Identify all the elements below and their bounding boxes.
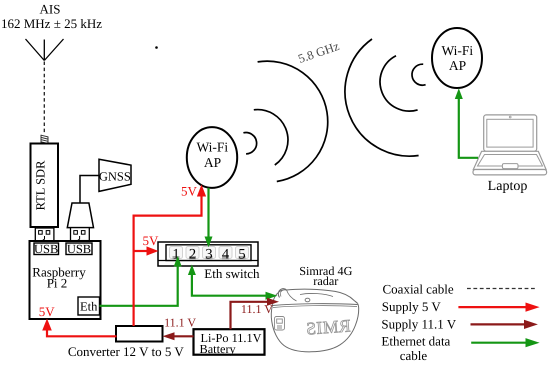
Simrad 4G radar radome sketch — [271, 289, 358, 352]
svg-text:11.1 V: 11.1 V — [241, 302, 273, 316]
svg-text:radar: radar — [313, 274, 338, 288]
svg-text:Laptop: Laptop — [488, 179, 528, 194]
USB plug of RTL SDR — [35, 228, 54, 241]
svg-text:Wi-Fi: Wi-Fi — [441, 43, 473, 58]
Ethernet cable switch port 2 to radar (green) — [192, 272, 266, 296]
svg-text:Coaxial cable: Coaxial cable — [383, 282, 454, 297]
supply 5V arrow into Wi-Fi AP — [197, 185, 206, 197]
Eth port box on Pi — [78, 297, 100, 315]
supply 11.1V wire battery to radar (dark red) — [231, 302, 268, 329]
supply 5V branch to switch (red) — [134, 250, 149, 252]
Ethernet cable Pi Eth to switch port 1 (green) — [100, 264, 178, 306]
coaxial cable antenna to RTL SDR (dashed) — [43, 62, 45, 134]
svg-text:5V: 5V — [39, 304, 56, 319]
radio wave arc large (left group) — [258, 61, 328, 181]
svg-text:Pi 2: Pi 2 — [47, 276, 68, 291]
supply 5V wire converter to Pi (red) — [47, 327, 117, 336]
antenna AIS — [26, 39, 64, 61]
svg-text:USB: USB — [34, 242, 58, 256]
RTL SDR box U1 — [31, 144, 59, 228]
svg-text:RTL SDR: RTL SDR — [34, 160, 48, 210]
coil choke at RTL SDR input — [41, 135, 48, 145]
radio wave arc medium (left group) — [254, 110, 288, 165]
Wi-Fi AP (center) — [187, 127, 237, 188]
svg-text:Wi-Fi: Wi-Fi — [196, 140, 228, 155]
USB port 2 label box — [66, 242, 92, 256]
svg-text:AP: AP — [204, 155, 221, 170]
supply 5V trunk from converter to AP (red) — [134, 192, 202, 326]
svg-text:AIS: AIS — [40, 2, 61, 17]
svg-text:cable: cable — [400, 348, 428, 363]
USB port 1 label box — [34, 242, 59, 256]
radio wave arc small (right group) — [412, 64, 426, 85]
Raspberry Pi 2 box — [30, 241, 101, 319]
svg-text:5V: 5V — [143, 233, 160, 248]
radar SIMRAD mirrored text — [305, 315, 351, 338]
radio wave arc medium (right group) — [380, 56, 418, 111]
switch ports RJ45 graphics — [170, 247, 249, 259]
svg-text:RMIS: RMIS — [305, 315, 351, 338]
radio wave arc large (right group) — [345, 39, 419, 156]
svg-text:3: 3 — [205, 247, 212, 263]
GNSS receiver horn — [99, 159, 131, 191]
port numbers 1-5 — [172, 247, 245, 263]
svg-text:162 MHz ± 25 kHz: 162 MHz ± 25 kHz — [1, 16, 102, 31]
laptop — [473, 115, 547, 175]
stray dot — [155, 46, 158, 49]
svg-text:GNSS: GNSS — [99, 170, 131, 184]
radio wave arc small (left group) — [243, 133, 256, 154]
svg-text:Ethernet data: Ethernet data — [381, 333, 450, 348]
Ethernet cable laptop to right AP (green) — [459, 96, 478, 158]
Eth switch body — [158, 242, 258, 266]
converter box — [68, 326, 185, 359]
svg-text:Battery: Battery — [200, 342, 237, 356]
Ethernet cable AP to switch port 3 (green) — [207, 188, 209, 239]
svg-text:5V: 5V — [181, 184, 198, 199]
svg-text:Supply 5 V: Supply 5 V — [382, 299, 442, 314]
svg-text:Eth: Eth — [80, 300, 98, 314]
svg-text:Supply 11.1 V: Supply 11.1 V — [381, 316, 456, 331]
Wi-Fi AP (right) — [432, 28, 482, 88]
svg-text:2: 2 — [189, 247, 196, 263]
radar 4G badge — [275, 317, 285, 331]
svg-text:Converter 12 V to 5 V: Converter 12 V to 5 V — [68, 344, 185, 359]
Li-Po battery box — [194, 329, 265, 356]
USB plug of GNSS (molded) — [67, 203, 93, 241]
wire GNSS to USB plug — [80, 176, 99, 204]
supply 11.1V wire battery to converter (dark red) — [172, 335, 194, 337]
svg-text:AP: AP — [449, 58, 466, 73]
svg-text:11.1 V: 11.1 V — [164, 316, 196, 330]
svg-text:5: 5 — [238, 247, 245, 263]
svg-text:Eth switch: Eth switch — [204, 266, 260, 281]
svg-text:4: 4 — [222, 247, 230, 263]
svg-text:USB: USB — [67, 242, 91, 256]
